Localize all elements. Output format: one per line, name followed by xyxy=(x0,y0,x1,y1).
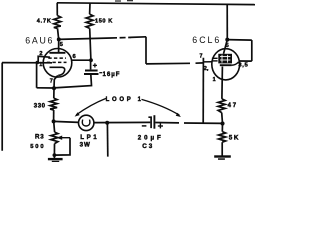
potentiometer R3 element xyxy=(51,132,58,144)
wire grid jog up to pin2 xyxy=(38,56,50,62)
wire cathode node down to 330 xyxy=(53,88,55,98)
wire 5K bottom lead xyxy=(221,142,223,155)
node 6CL6 plate junction dot xyxy=(225,38,229,42)
wire junction down to bottom edge xyxy=(106,123,108,157)
svg-text:330: 330 xyxy=(34,103,46,109)
label R3 value 500 xyxy=(30,144,45,150)
wire coupling line vertical drop xyxy=(145,37,147,64)
label 150K value xyxy=(95,18,113,24)
cathode bar 6CL6 xyxy=(220,64,232,66)
node grid junction dot xyxy=(36,61,40,65)
resistor 4.7K xyxy=(54,16,61,29)
svg-text:500: 500 xyxy=(30,144,45,150)
label 4.7K value xyxy=(37,19,52,25)
svg-text:2,: 2, xyxy=(204,66,209,72)
label minus sign C3 xyxy=(142,125,147,127)
wire pin6 screen lead xyxy=(72,59,91,61)
svg-text:7: 7 xyxy=(200,54,203,60)
wire cathode to right edge xyxy=(239,60,252,62)
wire grid input from left edge xyxy=(2,62,52,64)
resistor 330 xyxy=(50,98,57,110)
svg-text:20µF: 20µF xyxy=(138,134,164,141)
label R3 xyxy=(35,134,45,141)
wire 6CL6 plate stem xyxy=(224,40,228,54)
ground below R3 xyxy=(48,158,63,162)
svg-text:7: 7 xyxy=(50,78,53,84)
wire 330 bottom lead xyxy=(53,110,55,121)
wire 16uF bottom lead xyxy=(54,74,92,88)
pin 1 label 6CL6 xyxy=(213,77,216,83)
lamp LP1 envelope xyxy=(79,115,94,130)
svg-text:4.7K: 4.7K xyxy=(37,19,52,25)
label C3 value 20uF xyxy=(138,134,164,141)
resistor 150K xyxy=(86,14,93,28)
svg-text:C3: C3 xyxy=(142,143,154,150)
svg-text:150 K: 150 K xyxy=(95,18,113,24)
wire 6AU6 pin7 cathode lead xyxy=(54,75,58,88)
lamp LP1 filament xyxy=(82,120,90,126)
label LP1 xyxy=(80,134,99,141)
capacitor 16uF bottom plate xyxy=(84,73,99,75)
plate box 6CL6 xyxy=(218,54,232,64)
pin 1 label 6AU6 xyxy=(39,62,42,68)
wire junction down to 5K xyxy=(221,124,223,132)
pin 5 label 6AU6 xyxy=(60,42,63,48)
label 16uF value xyxy=(103,71,121,78)
wire coupling line from plate node (solid part) xyxy=(59,38,111,39)
label plus sign C3 xyxy=(158,124,163,129)
label minus sign 16uF xyxy=(99,72,102,74)
cathode 6AU6 xyxy=(50,67,65,75)
pin 7 label 6AU6 xyxy=(50,78,53,84)
wire screen node down to capacitor xyxy=(90,60,92,69)
wire 4.7K branch top lead xyxy=(56,3,58,16)
capacitor 16uF top plate xyxy=(85,70,98,72)
label 6AU6 xyxy=(25,35,54,45)
wire R3 bottom lead to ground xyxy=(53,144,55,159)
scan specks above rail xyxy=(115,0,133,2)
svg-text:1: 1 xyxy=(213,77,216,83)
pin 5 label 6CL6 xyxy=(226,43,229,49)
svg-text:47: 47 xyxy=(228,103,238,109)
label LOOP 1 xyxy=(106,97,144,103)
svg-text:6AU6: 6AU6 xyxy=(25,35,54,45)
label 6CL6 xyxy=(192,35,221,45)
wire 6CL6 grid lead horizontal xyxy=(146,63,203,64)
pin 2 label 6CL6 xyxy=(204,66,209,72)
wire 6AU6 pin5 plate stem xyxy=(58,39,60,52)
wire 4.7K bottom lead to plate node xyxy=(58,28,59,39)
wire 150K branch top lead xyxy=(89,3,91,14)
node plate of 6AU6 (junction dot) xyxy=(57,37,61,41)
svg-text:3W: 3W xyxy=(80,142,91,149)
wire junction down to R3 xyxy=(53,121,56,132)
label 5K value xyxy=(229,135,240,142)
wire right edge vertical xyxy=(251,40,253,61)
wire left edge vertical xyxy=(1,63,3,151)
resistor 47 xyxy=(218,99,225,113)
capacitor C3 left plate xyxy=(148,117,151,128)
plate bar 6AU6 xyxy=(49,52,65,54)
label LP1 3W xyxy=(80,142,91,149)
cathode hook 6CL6 xyxy=(232,62,239,65)
pin 3,5 label 6CL6 xyxy=(238,62,248,68)
wire C3 to cathode junction xyxy=(155,122,222,125)
grid dashes 6CL6 xyxy=(212,58,218,61)
wire 6CL6 grid stub into tube xyxy=(203,61,212,63)
svg-text:3,5: 3,5 xyxy=(238,62,248,68)
svg-text:R3: R3 xyxy=(35,134,45,141)
grid dashes 6AU6 row1 xyxy=(48,57,66,59)
tube 6CL6 envelope xyxy=(212,49,240,80)
wire 150K bottom lead down to screen node xyxy=(90,28,91,60)
wire 6CL6 grid bar down to feedback wire xyxy=(202,58,204,123)
node feedback junction dot xyxy=(220,121,224,125)
wire grid-return horizontal to cathode node xyxy=(37,87,54,89)
tube 6AU6 envelope xyxy=(43,49,72,78)
wire grid-return down from junction xyxy=(36,63,38,88)
callout arc LOOP 1 xyxy=(75,98,181,117)
svg-text:6: 6 xyxy=(73,54,77,60)
wire lamp to C3 xyxy=(94,121,150,123)
svg-text:6CL6: 6CL6 xyxy=(192,35,221,45)
node 330 R3 lamp junction dot xyxy=(52,119,56,123)
wire coupling line broken segment xyxy=(111,37,146,38)
node lamp output junction dot xyxy=(105,121,109,125)
resistor 5K xyxy=(219,132,226,143)
wire top supply rail xyxy=(57,3,255,5)
wire R3 wiper loop xyxy=(55,138,71,155)
wire plate node to right edge xyxy=(227,39,252,42)
capacitor C3 right plate xyxy=(153,115,155,129)
label 330 value xyxy=(34,103,46,109)
pin 2 label 6AU6 xyxy=(39,51,42,57)
pin 6 label 6AU6 xyxy=(73,54,77,60)
pin 7 label 6CL6 xyxy=(200,54,203,60)
node R3 wiper bottom junction dot xyxy=(53,153,57,157)
svg-text:16µF: 16µF xyxy=(103,71,121,78)
ground below 5K xyxy=(214,155,231,160)
svg-text:LOOP 1: LOOP 1 xyxy=(106,97,144,103)
wiper arrow R3 xyxy=(57,136,71,140)
wire 47 bottom lead xyxy=(221,113,224,124)
grid dashes 6AU6 row2 xyxy=(47,61,67,63)
svg-text:5K: 5K xyxy=(229,135,240,142)
label C3 designator xyxy=(142,143,154,150)
svg-text:5: 5 xyxy=(226,43,229,49)
wire junction to lamp xyxy=(54,121,79,122)
svg-text:5: 5 xyxy=(60,42,63,48)
node screen junction dot xyxy=(89,58,93,62)
label plus sign 16uF xyxy=(93,63,97,67)
node cathode junction dot xyxy=(52,86,56,90)
svg-text:LP1: LP1 xyxy=(80,134,99,141)
wire 6CL6 pin1 lead xyxy=(221,67,224,99)
label 47 value xyxy=(228,103,238,109)
wire top rail down to 6CL6 plate xyxy=(226,4,228,39)
